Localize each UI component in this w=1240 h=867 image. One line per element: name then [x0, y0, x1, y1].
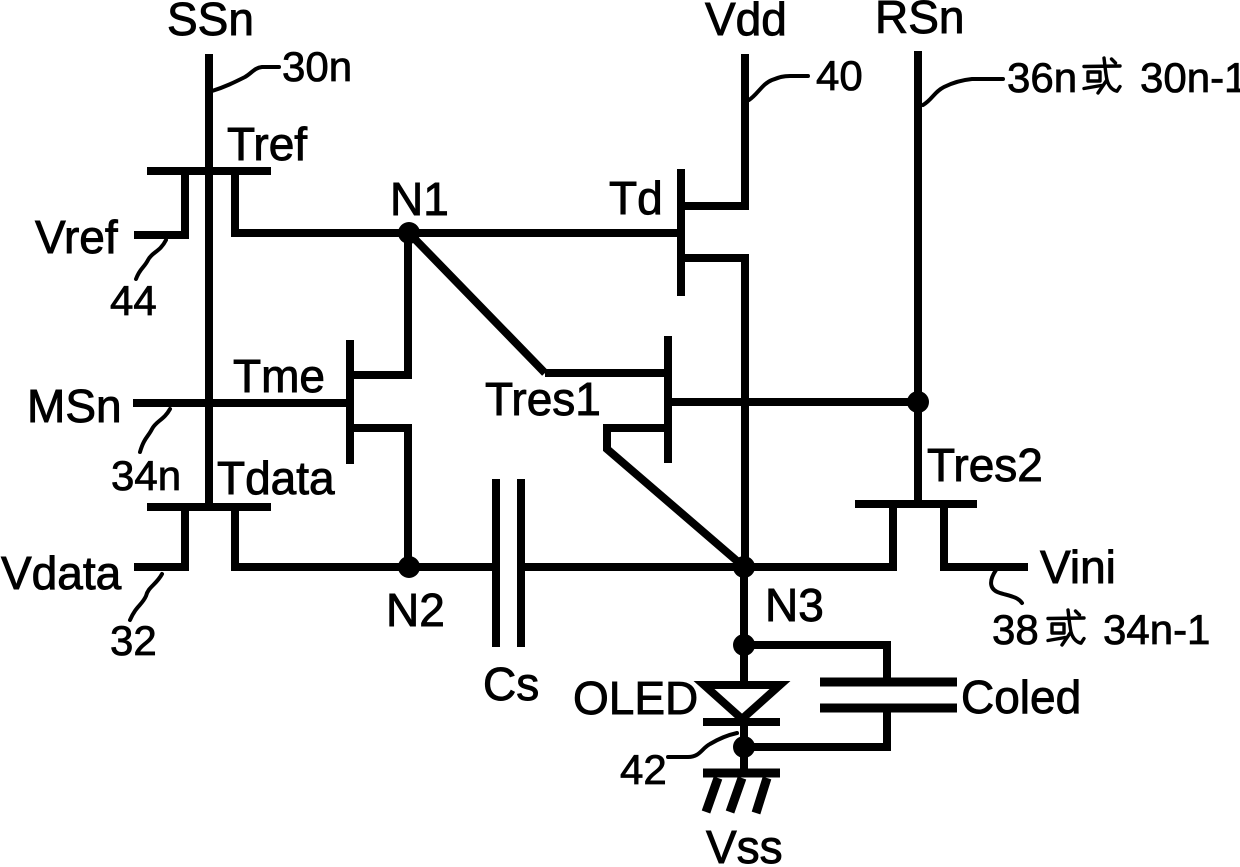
wire Tres1 gate to RSn [668, 398, 918, 406]
svg-text:36n: 36n [1007, 54, 1077, 101]
svg-text:N3: N3 [765, 579, 824, 631]
svg-text:Vdata: Vdata [1, 547, 122, 599]
wire SSn scan line bus [205, 54, 213, 503]
capacitor Coled [820, 682, 957, 708]
svg-text:42: 42 [620, 746, 667, 793]
svg-text:Cs: Cs [483, 658, 539, 710]
wire Tme source to N2 [404, 428, 412, 567]
svg-text:Td: Td [609, 172, 663, 224]
wire Coled top branch [744, 645, 887, 682]
wire node N1 rail [231, 229, 677, 237]
transistor Tdata [147, 503, 271, 571]
leader 34n [140, 409, 170, 452]
svg-text:Vini: Vini [1040, 541, 1116, 593]
svg-text:N1: N1 [390, 173, 449, 225]
svg-text:Tref: Tref [227, 118, 307, 170]
wire N3 down to OLED anode [740, 567, 748, 685]
node RSn gate junction [907, 391, 929, 413]
svg-text:32: 32 [110, 617, 157, 664]
leader 38/34n-1 [991, 570, 1022, 603]
svg-text:Coled: Coled [961, 671, 1081, 723]
wire Vdd lower to N3 [741, 254, 749, 567]
character huo 2 [1048, 610, 1084, 645]
wire OLED cathode to ground [740, 722, 748, 773]
svg-text:38: 38 [992, 606, 1039, 653]
node OLED cathode junction [733, 736, 755, 758]
svg-text:N2: N2 [386, 584, 445, 636]
svg-text:Vdd: Vdd [705, 0, 787, 45]
wire Vdata lead [134, 563, 189, 571]
wire N3 to Tres2 [744, 563, 893, 571]
node OLED anode junction [733, 634, 755, 656]
wire N1 to Tme drain [404, 233, 412, 379]
svg-text:30n-1: 30n-1 [1140, 54, 1240, 101]
wire N2 rail segment [231, 563, 496, 571]
svg-text:OLED: OLED [573, 672, 698, 724]
node N2 [398, 556, 420, 578]
transistor Tres1 [545, 336, 672, 463]
wire RSn bus [914, 51, 922, 500]
svg-text:SSn: SSn [167, 0, 254, 45]
wire Vini lead [944, 563, 1028, 571]
node N1 [398, 222, 420, 244]
svg-text:Vss: Vss [706, 821, 783, 867]
transistor Tres2 [855, 500, 977, 571]
svg-text:Tres1: Tres1 [485, 373, 601, 425]
node N3 [733, 556, 755, 578]
leader 30n [212, 67, 279, 91]
wire MSn measure line [133, 399, 350, 407]
leader 36n/30n-1 [923, 79, 1003, 105]
svg-text:Tres2: Tres2 [927, 439, 1043, 491]
wire N2 to N3 rail segment [521, 563, 744, 571]
wire Vdd bus upper [741, 54, 749, 210]
character huo 1 [1084, 58, 1120, 93]
transistor Tme [346, 340, 412, 464]
svg-text:Vref: Vref [35, 211, 118, 263]
wire Tres1 source bend diagonal to N3 [607, 426, 744, 567]
wire Vref lead [134, 231, 189, 239]
svg-text:30n: 30n [282, 43, 352, 90]
svg-text:34n-1: 34n-1 [1103, 606, 1210, 653]
transistor Tref [147, 167, 271, 239]
ground Vss [703, 773, 780, 813]
svg-text:Tme: Tme [233, 350, 325, 402]
diode OLED [703, 685, 780, 722]
transistor Td [677, 169, 745, 296]
svg-text:40: 40 [816, 52, 863, 99]
svg-text:34n: 34n [111, 452, 181, 499]
svg-text:RSn: RSn [875, 0, 964, 43]
svg-text:44: 44 [110, 277, 157, 324]
leader 32 [130, 574, 162, 620]
svg-text:Tdata: Tdata [217, 452, 335, 504]
wire Coled bottom branch [744, 708, 887, 747]
svg-text:MSn: MSn [27, 380, 122, 432]
capacitor Cs [496, 479, 521, 647]
leader 44 [136, 240, 166, 279]
leader 42 [668, 733, 737, 757]
leader 40 [749, 76, 808, 100]
wire N1 diagonal to Tres1 drain [409, 233, 545, 373]
